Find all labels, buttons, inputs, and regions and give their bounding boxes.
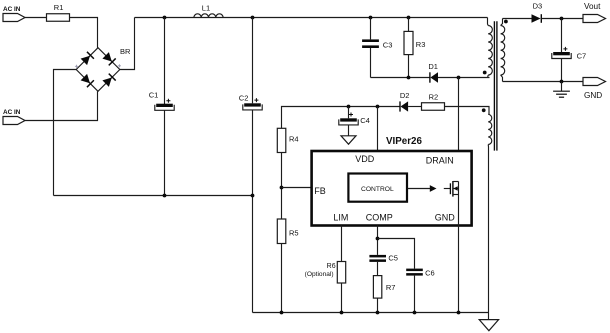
wire bottom rail (253, 312, 489, 314)
svg-text:R5: R5 (289, 228, 299, 237)
wire negative link (54, 195, 253, 197)
IC U1 VIPer26 block (312, 136, 472, 226)
svg-text:C4: C4 (360, 116, 370, 125)
node junction C7/Vout (560, 17, 564, 21)
connector Vout (583, 2, 606, 22)
svg-text:(Optional): (Optional) (305, 271, 334, 278)
transformer primary winding (488, 18, 493, 78)
svg-text:BR: BR (120, 47, 131, 56)
wire source/GND pin (458, 195, 460, 313)
transformer secondary winding (501, 19, 505, 82)
wire AC IN bottom to bridge bottom vertex (25, 91, 98, 120)
ground (primary, bottom right) (479, 313, 498, 331)
svg-text:COMP: COMP (366, 212, 393, 222)
svg-text:CONTROL: CONTROL (361, 186, 394, 193)
wire secondary bottom rail (503, 81, 584, 83)
node junction R3/snubber (407, 76, 411, 80)
node junction VDD pin (376, 105, 380, 109)
svg-text:C6: C6 (425, 268, 435, 277)
wire FB (282, 187, 312, 189)
svg-text:VDD: VDD (355, 154, 375, 164)
wire COMP to C6 branch (378, 239, 415, 269)
capacitor C3 (362, 18, 392, 78)
svg-text:R1: R1 (54, 3, 64, 12)
node junction C2/top rail (251, 16, 255, 20)
resistor R2 (422, 93, 445, 111)
capacitor C6 (406, 268, 434, 312)
node primary polarity dot (483, 71, 487, 75)
resistor R6 (305, 262, 346, 313)
node junction GND pin/rail (457, 311, 461, 315)
wire control to gate (arrow) (408, 185, 437, 192)
svg-text:R2: R2 (429, 93, 439, 102)
node secondary polarity dot (504, 20, 508, 24)
wire COMP pin (377, 225, 379, 255)
wire bridge right vertex to top rail (120, 18, 135, 70)
svg-text:D1: D1 (428, 62, 438, 71)
wire VDD rail (282, 107, 401, 129)
node junction C4/VDD rail (347, 105, 351, 109)
capacitor C7 (552, 19, 586, 82)
svg-text:FB: FB (314, 186, 326, 196)
wire LIM pin (341, 225, 343, 261)
wire drain (458, 78, 460, 182)
wire bridge left vertex to negative link (54, 70, 77, 196)
resistor R3 (404, 18, 425, 78)
CONTROL block (348, 174, 407, 202)
connector GND (583, 78, 606, 101)
resistor R5 (277, 219, 298, 313)
svg-text:D3: D3 (533, 2, 543, 11)
node junction R6/rail (340, 311, 344, 315)
svg-text:Vout: Vout (584, 2, 601, 11)
node junction R3/top rail (407, 16, 411, 20)
capacitor C4 (339, 107, 370, 136)
node junction C6/rail (413, 311, 417, 315)
diode D3 (532, 2, 543, 23)
node junction negative link/C2 line (251, 194, 255, 198)
svg-text:GND: GND (435, 212, 456, 222)
wire R1 to bridge top vertex (70, 18, 98, 48)
node auxiliary polarity dot (482, 108, 486, 112)
resistor R7 (373, 276, 395, 313)
svg-text:R6: R6 (327, 263, 336, 270)
transformer auxiliary winding (488, 114, 492, 312)
svg-text:LIM: LIM (333, 212, 348, 222)
resistor R1 (47, 3, 70, 21)
capacitor C2 (239, 18, 262, 313)
svg-text:R3: R3 (416, 40, 426, 49)
diode D2 (400, 91, 422, 111)
node FB junction (280, 186, 284, 190)
wire snubber bottom (371, 77, 430, 79)
diode D1 (428, 62, 489, 83)
node junction C7/GND rail (560, 80, 564, 84)
resistor R4 (277, 128, 298, 219)
svg-text:VIPer26: VIPer26 (386, 136, 423, 147)
node junction C1/top rail (163, 16, 167, 20)
wire VDD pin (377, 107, 379, 151)
transistor M1 (internal MOSFET) (444, 181, 459, 197)
node junction R5/rail (280, 311, 284, 315)
connector AC IN (top) (3, 6, 25, 22)
ground (earth, output) (553, 82, 570, 98)
wire secondary top to D3 (503, 18, 532, 20)
svg-text:AC IN: AC IN (3, 109, 21, 116)
svg-text:L1: L1 (202, 3, 210, 12)
svg-text:C2: C2 (239, 94, 249, 103)
svg-text:C3: C3 (383, 41, 393, 50)
svg-text:D2: D2 (400, 91, 410, 100)
svg-text:GND: GND (584, 91, 602, 100)
svg-text:R7: R7 (386, 283, 396, 292)
node junction R7/rail (376, 311, 380, 315)
node junction D1/drain (457, 76, 461, 80)
capacitor C1 (149, 18, 175, 196)
capacitor C5 (369, 254, 398, 276)
inductor L1 (194, 3, 223, 17)
svg-text:DRAIN: DRAIN (426, 156, 454, 166)
wire AC IN top to R1 (25, 17, 47, 19)
wire top rail (135, 17, 488, 19)
svg-text:AC IN: AC IN (3, 6, 21, 13)
node junction C1/negative link (163, 194, 167, 198)
bridge rectifier BR (75, 47, 131, 91)
svg-text:C1: C1 (149, 90, 159, 99)
wire R2 to aux winding (445, 107, 490, 115)
svg-text:C7: C7 (577, 52, 587, 61)
wire D3 to Vout (541, 18, 583, 20)
ground (signal, under C4) (341, 136, 356, 144)
connector AC IN (bottom) (3, 109, 25, 125)
node junction COMP branch (376, 237, 380, 241)
svg-text:C5: C5 (388, 254, 398, 263)
transformer T1 core (494, 21, 497, 150)
node junction C3/top rail (369, 16, 373, 20)
svg-text:R4: R4 (289, 135, 299, 144)
